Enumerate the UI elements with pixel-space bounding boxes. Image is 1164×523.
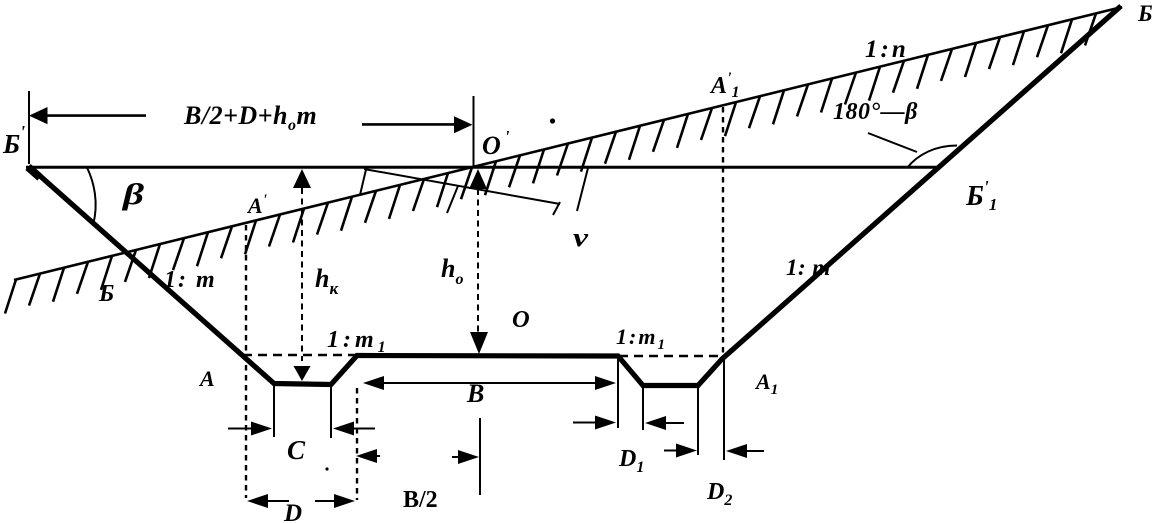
dashed road level line across right cuvette <box>619 355 727 357</box>
svg-text:B/2+D+hom: B/2+D+hom <box>183 101 317 134</box>
D2 dimension arrows pointing inward at x=698 and x=724 <box>664 444 764 459</box>
left vertical reference tick at Б' <box>28 91 30 164</box>
svg-text:1: m: 1: m <box>786 255 831 280</box>
svg-text:Б: Б <box>98 281 114 307</box>
ground line 1:n from left edge to point Б top right <box>14 7 1122 280</box>
svg-text:hк: hк <box>315 264 338 298</box>
horizontal design line Б'—Б'1 <box>26 166 938 169</box>
extension line below right cuvette corner x=643 <box>642 387 644 430</box>
top dimension B/2+D+h0m: line and arrows <box>29 107 473 133</box>
extension line below right cuvette corner x=618 <box>617 358 619 428</box>
thick cut profile Б'-A-cuvette-road-cuvette-Б <box>30 6 1121 386</box>
svg-text:180°—β: 180°—β <box>833 99 918 125</box>
svg-text:D2: D2 <box>706 479 732 509</box>
svg-text:O': O' <box>482 127 510 160</box>
dashed extension below road corner x=357 <box>356 388 358 500</box>
svg-text:D1: D1 <box>618 446 644 476</box>
wedge hatch <box>447 186 458 213</box>
vertical line through O' up to top dimension <box>473 96 475 166</box>
C dimension arrows pointing inward at x=274 and x=331 <box>228 422 375 436</box>
svg-text:Б'1: Б'1 <box>965 177 997 214</box>
extension line below left cuvette corner x=274 <box>273 386 275 437</box>
svg-text:A': A' <box>246 192 267 218</box>
wedge end stroke <box>553 202 560 215</box>
long hatch stroke below design line near v <box>577 168 588 211</box>
extension line below right cuvette corner x=724 <box>723 360 725 460</box>
svg-text:C: C <box>287 435 306 465</box>
dashed vertical through A'1 <box>722 107 724 355</box>
extension line below right cuvette corner x=698 <box>697 387 699 455</box>
leader line from 180-beta label to arc <box>868 133 917 152</box>
ground hatching along 1:n line <box>5 13 1096 313</box>
svg-text:A1: A1 <box>754 369 778 398</box>
dashed road level line across left cuvette <box>243 354 356 356</box>
180-beta angle arc at Б'1 corner <box>907 146 957 169</box>
svg-text:1:m1: 1:m1 <box>616 324 667 353</box>
h_o dimension: dashed vertical with arrows at x=478 <box>469 169 488 354</box>
scan speckle dots <box>550 118 555 123</box>
svg-text:A'1: A'1 <box>709 70 739 101</box>
pen blob at slope start near Б' <box>28 167 40 178</box>
road center line tick <box>479 418 481 495</box>
dashed vertical through A' <box>245 225 247 498</box>
svg-text:Б: Б <box>1137 1 1153 26</box>
svg-text:1: m: 1: m <box>164 267 217 293</box>
B dimension line with outward arrows <box>363 376 616 390</box>
svg-text:B: B <box>466 379 484 408</box>
svg-text:1:m1: 1:m1 <box>327 327 390 356</box>
svg-text:Б': Б' <box>2 122 25 159</box>
extension line below left cuvette corner x=331 <box>330 386 332 438</box>
svg-text:β: β <box>122 178 145 211</box>
D1 dimension arrows pointing inward at x=618 and x=643 <box>573 416 684 431</box>
wedge line near O' (reflected ground line) <box>364 169 560 204</box>
wedge left closing stroke <box>360 170 366 196</box>
h_k dimension: dashed vertical with arrows at x=302 <box>293 169 311 381</box>
svg-text:A: A <box>198 366 215 391</box>
D dimension arrows pointing outward at x=247 and x=355 <box>247 494 355 508</box>
B/2 dimension arrows pointing outward at x=356 and x=480 <box>356 449 479 464</box>
svg-text:O: O <box>512 306 530 333</box>
svg-text:1:n: 1:n <box>865 36 909 63</box>
beta angle arc at Б' <box>87 168 96 226</box>
svg-text:D: D <box>283 500 302 523</box>
svg-text:B/2: B/2 <box>403 487 438 513</box>
svg-text:ho: ho <box>441 254 463 288</box>
svg-text:v: v <box>573 223 589 252</box>
